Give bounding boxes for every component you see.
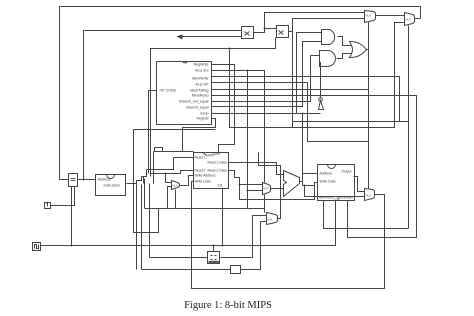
svg-text:Output: Output: [341, 170, 351, 174]
node zero junction: [302, 113, 304, 115]
pass box B2: [231, 266, 241, 274]
svg-text:Address: Address: [320, 172, 333, 176]
wire mux T input 2 feed: [168, 187, 172, 209]
svg-text:RegDst: RegDst: [197, 116, 209, 120]
control unit labels: [160, 62, 210, 120]
caption: [0, 300, 456, 311]
svg-text:Read 2 Data: Read 2 Data: [207, 169, 226, 173]
wire clock up to register file: [222, 189, 224, 246]
node clock to divider: [213, 245, 215, 247]
wire ALU result to memory address: [303, 174, 318, 186]
AND gate G1 (beq): [322, 30, 335, 45]
wire constant one to PC: [51, 187, 75, 206]
wire AND G2 out to OR in2: [337, 54, 352, 59]
OR gate G3 (branch): [350, 42, 367, 58]
wire ALU OP down to mux column: [212, 83, 369, 142]
wire memory output to mux R input 1: [354, 177, 365, 192]
svg-text:Read 1: Read 1: [195, 156, 206, 160]
svg-text:Write Data: Write Data: [195, 180, 211, 184]
wire concat output to mux P input 2: [289, 19, 365, 128]
node PC-out junction: [83, 179, 85, 181]
node read2-muxT junction: [165, 173, 167, 175]
svg-text:MUX: MUX: [267, 218, 273, 222]
wire Branch_not_equal up to AND G2: [212, 56, 320, 102]
adder A1 (PC+1): [242, 27, 254, 39]
svg-text:Branch_equal: Branch_equal: [186, 105, 208, 109]
wire clock line: [41, 201, 336, 246]
wire mux S bottom to mux U select: [264, 195, 266, 213]
svg-text:ALU Src: ALU Src: [195, 68, 209, 72]
clock source CLK1: [33, 243, 41, 251]
node muxS input junction: [247, 190, 249, 192]
AND gate G2 (bne): [320, 51, 336, 67]
wire PC-next feedback top loop: [60, 7, 421, 180]
wire read 1 data to ALU input 1: [229, 163, 284, 175]
node ALUSrc branch: [247, 70, 249, 72]
svg-text:Read 1 Data: Read 1 Data: [207, 161, 226, 165]
concat box A2 (jump address): [277, 26, 289, 38]
wire ALU result bypass to mux R input 2: [303, 186, 365, 197]
wire splitter loop to select bus: [134, 130, 216, 233]
mux labels tiny: [173, 14, 412, 222]
wire read 2 data to mux S input 1: [240, 184, 263, 186]
wire ALUSrc down: [212, 71, 265, 209]
svg-text:MemRead: MemRead: [337, 196, 353, 200]
svg-text:Branch_not_equal: Branch_not_equal: [179, 99, 208, 103]
divider box B1: [208, 252, 220, 264]
wire MemWrite pin down: [324, 201, 409, 229]
wire AND G1 out to OR in1: [338, 37, 352, 46]
mux S (ALUSrc mux): [263, 183, 271, 195]
instruction memory M1: [96, 175, 126, 196]
wire instruction bits up to concat bottom: [151, 38, 276, 177]
svg-text:Jump: Jump: [200, 111, 209, 115]
wire PC-out up to incrementer: [84, 31, 242, 180]
svg-text:MemRead: MemRead: [192, 93, 209, 97]
wire PC+1 into concat box: [265, 28, 277, 30]
instruction memory labels: [98, 178, 121, 188]
wire mux P output to mux Q input 1: [376, 15, 405, 17]
wire into mux S input 2: [248, 190, 263, 192]
svg-text:Read 2: Read 2: [195, 169, 206, 173]
wire mux Q output into top feedback: [415, 18, 421, 20]
wire PC to instruction memory: [78, 179, 96, 181]
svg-text:Instruction: Instruction: [104, 184, 121, 188]
wire instruction word out with splitter staircase: [127, 174, 150, 270]
wire arrow feed to incrementer: [177, 35, 242, 40]
node PC+1 branch: [264, 28, 266, 30]
svg-text:MUX: MUX: [366, 194, 372, 198]
data memory M2: [318, 165, 355, 201]
wire Jump to mux Q select: [293, 121, 409, 123]
wire read 2 data down to memory write data: [240, 183, 318, 200]
mux Q (jump mux): [405, 13, 415, 26]
wire into pass box left: [142, 269, 231, 271]
mux T (RegDst mux): [172, 181, 180, 190]
wire into divider left: [150, 257, 208, 259]
control unit U1: [157, 62, 212, 125]
wire Branch_equal up to AND G1: [212, 42, 322, 107]
svg-text:MemToReg: MemToReg: [190, 88, 208, 92]
register file R1: [194, 153, 229, 189]
svg-text:Write Address: Write Address: [195, 174, 216, 178]
constant one pin: [45, 203, 51, 209]
wire read1 field to register file: [147, 158, 194, 174]
node read2 data branch: [239, 184, 241, 186]
ALU: [284, 171, 300, 197]
wire NOT output up to AND G2 input 2: [320, 63, 321, 98]
wire mux R output writeback loop: [192, 182, 385, 289]
svg-text:MemWrite: MemWrite: [319, 196, 334, 200]
node ALU result junction: [304, 185, 306, 187]
wire RegDst loop to mux T select: [154, 119, 216, 184]
wire mux T output to write address: [180, 176, 194, 186]
wire branch to mux T input 1: [166, 174, 172, 183]
wire RegWrite to register file: [212, 65, 235, 153]
svg-text:MUX: MUX: [173, 184, 179, 188]
node clock to PC: [71, 245, 73, 247]
svg-text:MUX: MUX: [406, 18, 412, 22]
mux P (branch mux): [365, 11, 376, 23]
wire opcode into control: [149, 91, 157, 174]
register PC: [69, 174, 78, 187]
wire OR output up to mux P select: [366, 22, 369, 90]
wire select bus at y207.8: [145, 179, 265, 209]
svg-text:Address: Address: [98, 178, 111, 182]
wire zero up to AND G1 input 1: [297, 33, 322, 114]
wire mux Q select down right side: [408, 26, 410, 229]
wire MemWrite route right: [212, 77, 400, 122]
wire jump field down and across to mux Q input 2: [230, 23, 405, 128]
wire MemToReg to mux R select: [212, 90, 369, 189]
wire pass box to mux U input 2: [241, 222, 267, 270]
wire clock up to PC: [71, 187, 73, 246]
wire MemRead down: [212, 96, 417, 238]
wire read2 field to register file: [151, 171, 194, 174]
wire clock down to divider box: [213, 246, 215, 252]
tunnel pin on RegDst staircase: [155, 148, 163, 152]
register file labels: [195, 152, 227, 188]
data memory labels: [319, 170, 353, 202]
mux U (shift mux): [267, 213, 278, 225]
mux R (MemToReg mux): [365, 189, 375, 201]
svg-text:RegWrite: RegWrite: [194, 62, 209, 66]
wire zero column from ALU result: [302, 114, 304, 174]
node clock to register file: [222, 245, 224, 247]
wire Jump line to NOT column: [212, 113, 321, 115]
svg-text:ALU OP: ALU OP: [195, 82, 209, 86]
wire mux S output to ALU input 2: [271, 188, 284, 190]
svg-text:Write Data: Write Data: [320, 180, 336, 184]
svg-text:OP CODE: OP CODE: [160, 88, 177, 92]
wire ALU result stub: [300, 181, 303, 183]
wire divider right to mux U input 1: [221, 216, 267, 258]
inverter G4: [319, 98, 324, 110]
svg-text:MemWrite: MemWrite: [192, 76, 208, 80]
wire adder A1 output to node: [254, 13, 365, 33]
svg-text:MUX: MUX: [263, 187, 269, 191]
svg-text:Clk: Clk: [218, 184, 223, 188]
wire read 2 data jog down: [229, 171, 240, 185]
node jump-field branch: [229, 48, 231, 50]
svg-text:MUX: MUX: [366, 14, 372, 18]
wire mux U output up: [259, 153, 281, 219]
svg-text:RegWrite: RegWrite: [206, 152, 221, 158]
